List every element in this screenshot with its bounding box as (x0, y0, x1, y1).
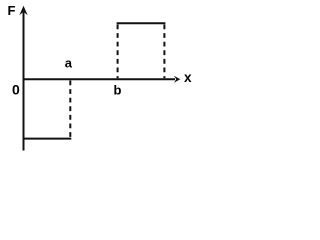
svg-text:b: b (114, 83, 122, 98)
svg-text:x: x (184, 70, 192, 85)
svg-text:0: 0 (12, 82, 20, 98)
svg-text:a: a (65, 56, 73, 71)
svg-text:F: F (8, 3, 16, 18)
